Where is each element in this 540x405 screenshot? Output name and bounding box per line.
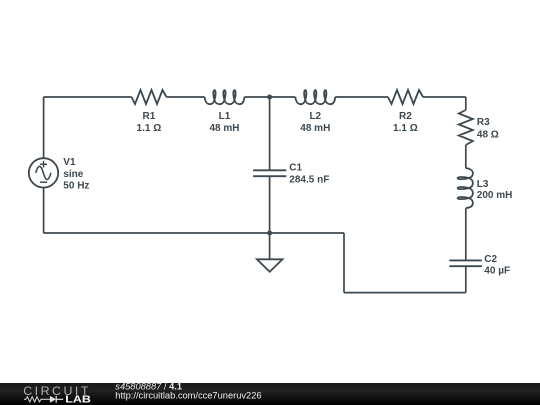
svg-text:R1: R1 [143,111,156,122]
svg-text:LAB: LAB [65,395,91,405]
svg-text:40 µF: 40 µF [484,265,510,276]
svg-text:48 mH: 48 mH [300,123,330,134]
svg-text:L2: L2 [309,111,321,122]
svg-text:R2: R2 [399,111,412,122]
svg-text:V1: V1 [63,157,76,168]
svg-text:R3: R3 [477,117,490,128]
svg-text:1.1 Ω: 1.1 Ω [137,123,162,134]
svg-text:L1: L1 [219,111,231,122]
svg-text:50 Hz: 50 Hz [63,180,89,191]
svg-text:http://circuitlab.com/cce7uner: http://circuitlab.com/cce7uneruv226 [115,391,261,401]
svg-text:48 Ω: 48 Ω [477,129,499,140]
svg-text:200 mH: 200 mH [477,190,513,201]
svg-text:C1: C1 [289,163,302,174]
svg-text:L3: L3 [477,179,489,190]
svg-text:284.5 nF: 284.5 nF [289,174,329,185]
svg-text:48 mH: 48 mH [209,123,239,134]
svg-text:1.1 Ω: 1.1 Ω [393,123,418,134]
svg-text:C2: C2 [484,254,497,265]
svg-text:sine: sine [63,169,83,180]
